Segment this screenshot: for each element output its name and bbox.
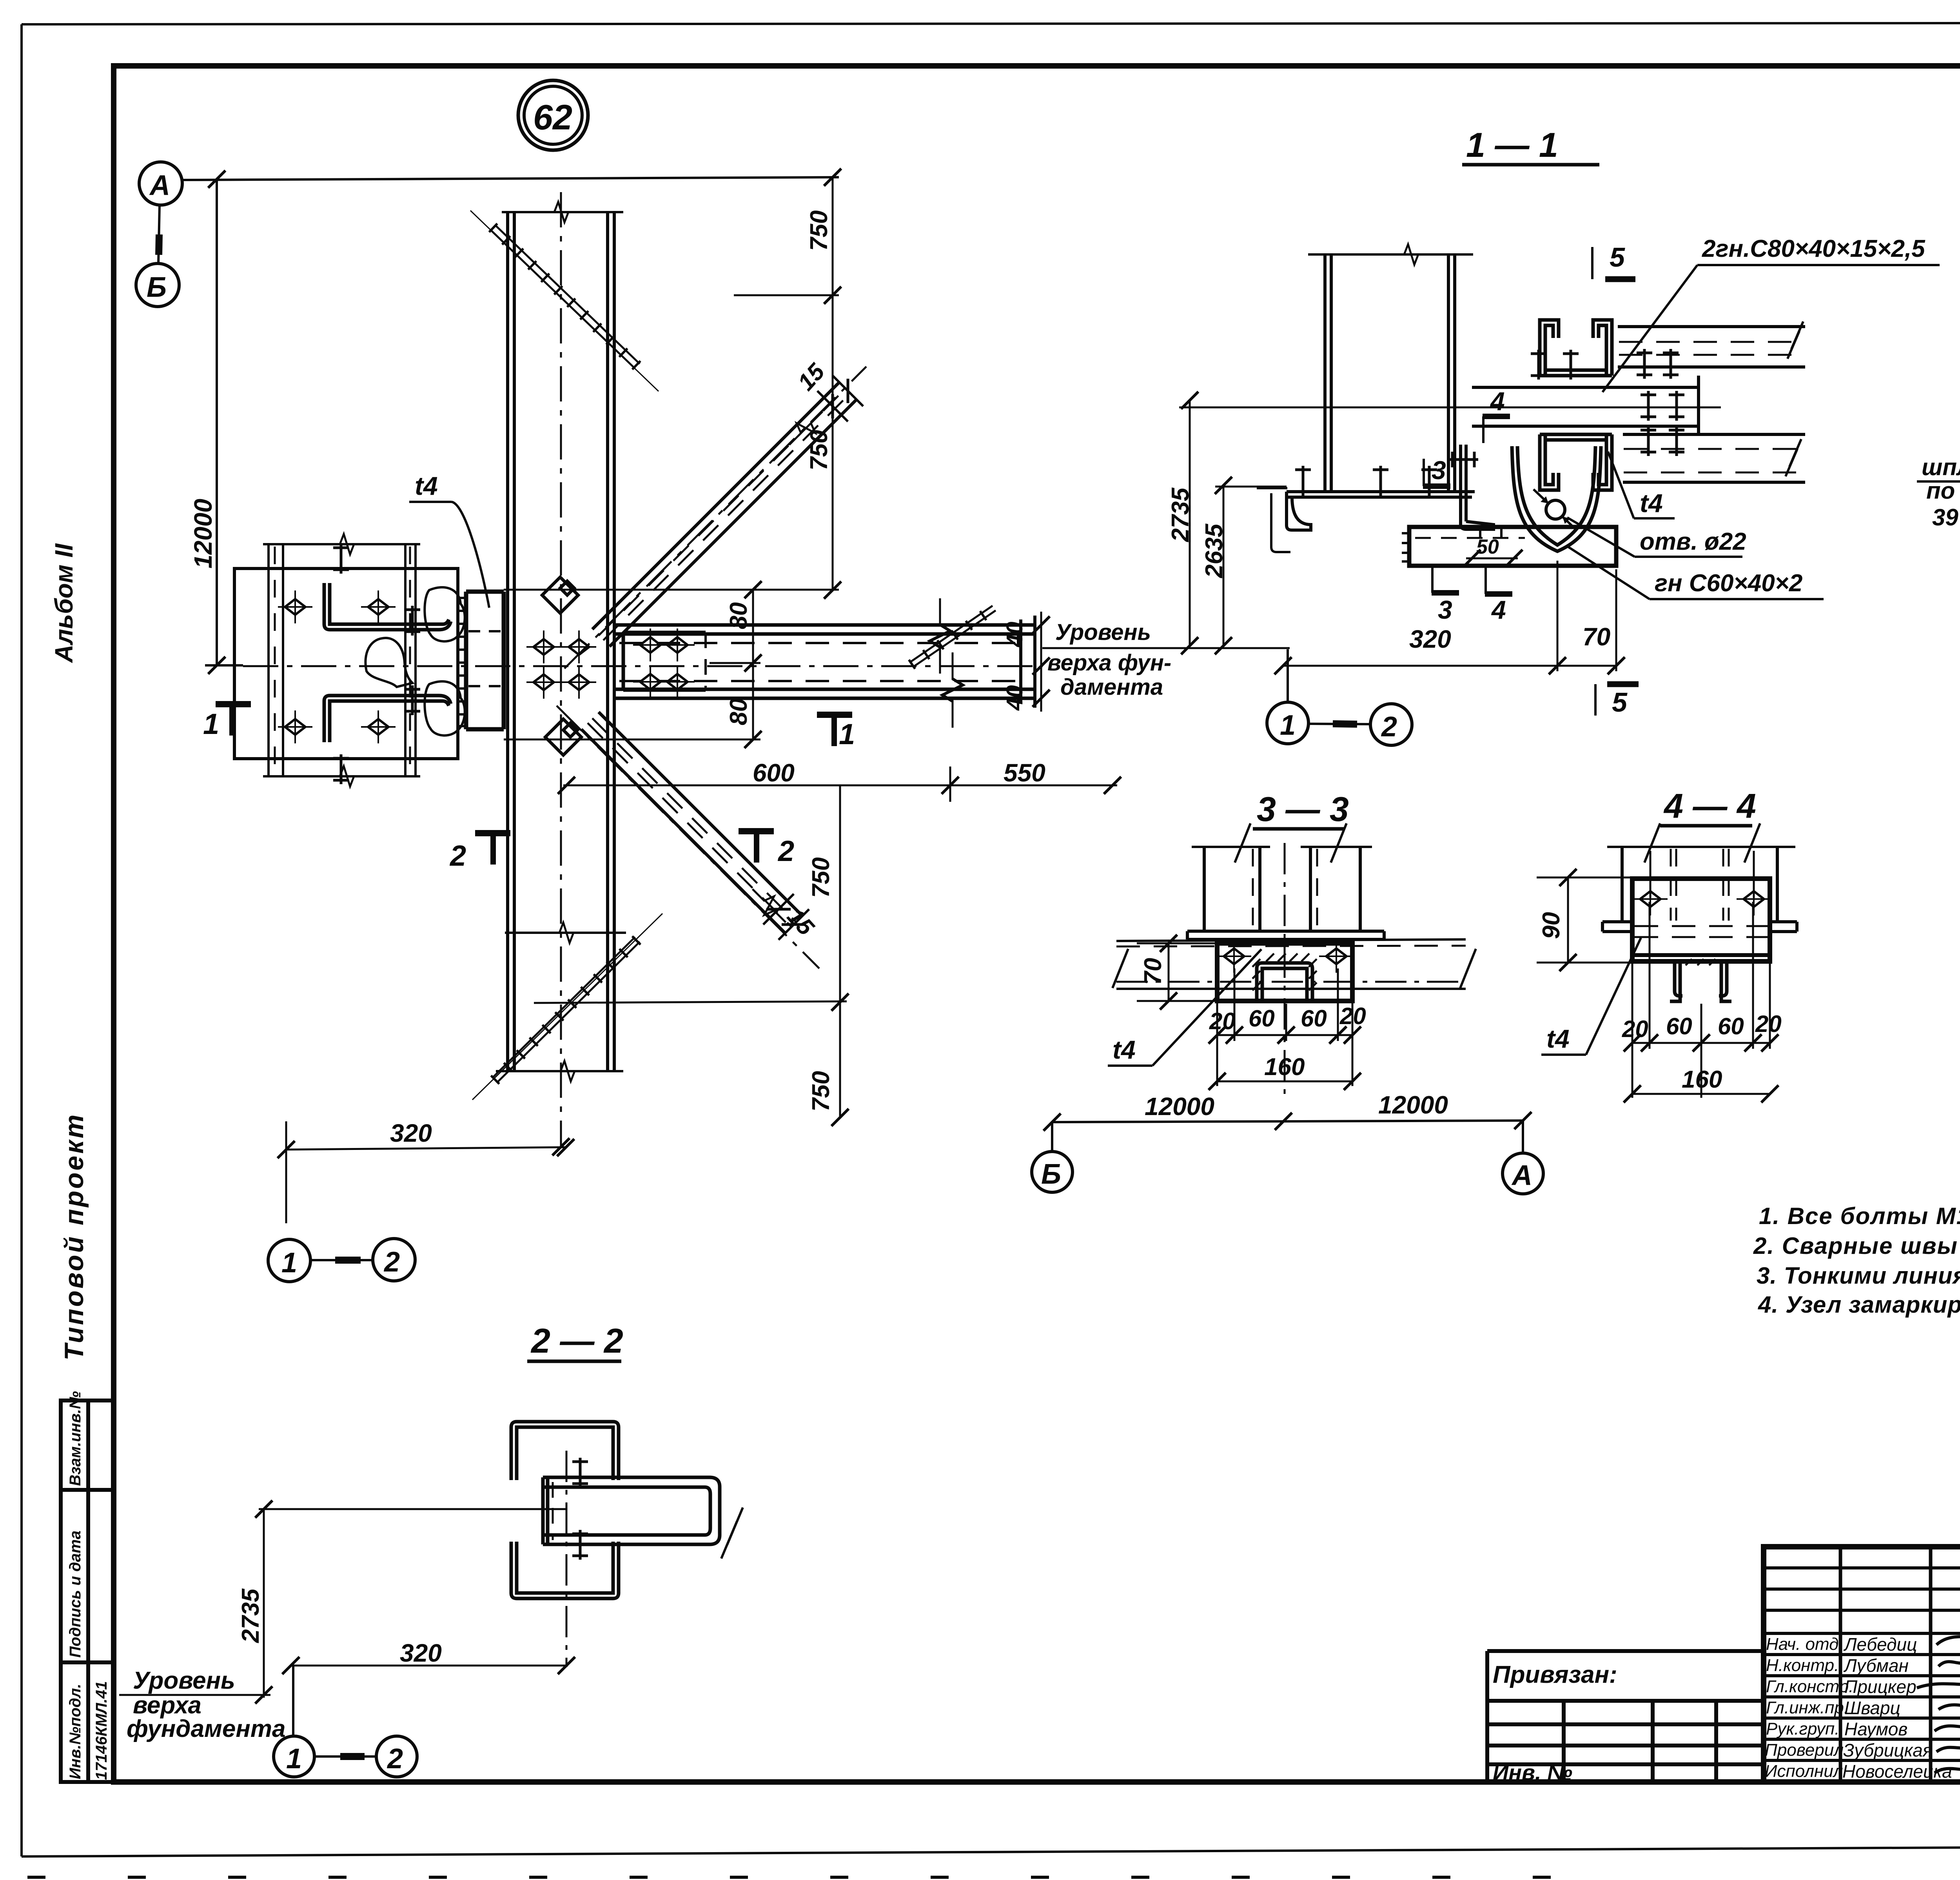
column of section 1-1 [1325,254,1455,492]
svg-text:397-79*: 397-79* [1932,504,1960,530]
dim 70 s33 [1168,943,1170,1001]
svg-text:1. Все болты М12.: 1. Все болты М12. [1759,1203,1960,1229]
beam top flange [615,625,1035,698]
svg-text:2 — 2: 2 — 2 [530,1321,623,1360]
grid bubble B [136,263,179,307]
svg-text:2: 2 [1381,711,1397,743]
svg-text:верха фун-: верха фун- [1047,650,1171,676]
svg-text:1 — 1: 1 — 1 [1466,125,1558,164]
brace upper gusset diamond [542,577,578,613]
wall verticals through plate [269,544,416,776]
svg-text:отв. ø22: отв. ø22 [1640,528,1746,555]
svg-text:Альбом II: Альбом II [50,543,78,663]
svg-text:750: 750 [808,857,835,898]
svg-text:320: 320 [400,1639,442,1667]
svg-text:2гн.С80×40×15×2,5: 2гн.С80×40×15×2,5 [1702,235,1926,262]
channel upper [324,583,451,630]
base plate 1-1 [1409,527,1616,566]
svg-text:дамента: дамента [1060,674,1163,700]
column flanges 3-3 [1204,847,1360,931]
grid bubble A bottom [1522,1121,1524,1153]
svg-text:Исполнил: Исполнил [1765,1762,1843,1781]
svg-text:320: 320 [390,1119,432,1147]
privyazan block [1487,1651,1764,1782]
column mid break lines [505,932,626,934]
lower channel [1540,434,1612,490]
mid band [1472,376,1699,434]
svg-text:750: 750 [806,211,833,251]
svg-text:1: 1 [839,718,855,750]
svg-text:3 — 3: 3 — 3 [1257,790,1349,828]
svg-text:80: 80 [725,698,752,725]
dim 160 s33 [1217,1081,1352,1083]
svg-text:2635: 2635 [1201,523,1228,578]
rail upper right [1618,327,1805,367]
dim 2735 s22 [263,1509,265,1698]
svg-text:Инв.№подл.: Инв.№подл. [67,1684,84,1779]
svg-text:60: 60 [1301,1005,1327,1032]
shelf angle [1287,492,1475,530]
hatch diagonal on beam right [909,606,996,667]
svg-text:Лубман: Лубман [1843,1655,1909,1676]
plan bubbles 1 2 [268,1239,310,1282]
svg-text:Взам.инв.№: Взам.инв.№ [67,1391,84,1486]
level line left [205,664,243,667]
long beam lines 3-3 [1116,939,1466,941]
svg-text:t4: t4 [1640,489,1663,518]
bolts on shelf [1295,466,1311,496]
dim 12000 vertical [216,179,218,665]
svg-text:2: 2 [387,1743,403,1775]
svg-text:Проверил: Проверил [1765,1740,1844,1760]
dim 600/550 [563,785,1117,787]
svg-text:Уровень: Уровень [1055,619,1151,645]
middle beam 2-2 [543,1477,720,1544]
dim chain 750/750 right top [832,177,834,591]
svg-text:1: 1 [286,1743,302,1775]
dim 90 s44 [1567,877,1569,963]
brace lower end cut [779,909,809,940]
beam break marks [930,598,950,674]
bubbles 1 2 s22 [292,1666,294,1736]
svg-text:t4: t4 [415,471,438,500]
svg-text:40: 40 [1002,621,1027,647]
section mark 4 top [1482,416,1485,443]
svg-text:50: 50 [1476,536,1499,558]
channel lower [324,696,451,742]
column (vertical member) [508,212,614,1071]
vertical angle at column base [1461,445,1494,529]
weld blobs [365,638,412,687]
svg-text:750: 750 [806,430,833,470]
svg-text:Наумов: Наумов [1844,1719,1907,1739]
svg-text:4. Узел замаркирован на лис: 4. Узел замаркирован на листе 43. [1758,1291,1960,1318]
centerline 2-2 [566,1451,568,1667]
node circle 62 [518,80,588,150]
extension lines [1179,407,1411,409]
svg-text:3. Тонкими линиями изображе: 3. Тонкими линиями изображены конструкци… [1757,1262,1960,1289]
svg-text:2: 2 [777,835,794,867]
svg-text:550: 550 [1004,759,1045,787]
top hat channel 2-2 [511,1422,619,1480]
column flanges 4-4 [1622,847,1777,922]
svg-text:40: 40 [1002,685,1027,711]
bottom hat channel 2-2 [511,1542,619,1598]
svg-text:5: 5 [1610,242,1625,272]
bubbles 1 2 of section 1-1 [1287,649,1289,702]
svg-text:20: 20 [1622,1016,1648,1042]
dims 20 60 60 20 s44 [1632,1042,1770,1044]
gusset weld ticks [458,598,467,726]
svg-text:А: А [1511,1160,1532,1191]
section mark 3 bottom [1431,567,1434,593]
left grid horizontals [1764,1568,1960,1760]
svg-text:2: 2 [449,839,466,872]
svg-text:80: 80 [725,602,752,629]
bubble connector [158,205,160,263]
splice plate [623,632,706,690]
svg-text:Прицкер: Прицкер [1844,1677,1916,1697]
svg-text:Подпись и дата: Подпись и дата [67,1531,84,1658]
top break line 4-4 [1607,846,1795,848]
left grid verticals [1840,1547,1960,1782]
section mark 1 right [817,712,852,718]
svg-text:Гл.констр.: Гл.констр. [1766,1677,1853,1696]
bottom dashed line [27,1876,1627,1879]
svg-text:фундамента: фундамента [127,1715,285,1742]
upper lipped channel [1540,320,1612,376]
svg-text:4 — 4: 4 — 4 [1663,787,1756,825]
50 slot dim [1479,528,1481,538]
section mark 5 bottom [1594,684,1597,716]
brace upper end cut [833,376,863,406]
svg-text:160: 160 [1682,1066,1722,1093]
svg-text:Нач. отд.: Нач. отд. [1766,1635,1844,1654]
left edge lines [1257,487,1287,489]
center bolts [526,630,561,663]
svg-text:Привязан:: Привязан: [1493,1661,1617,1688]
svg-text:60: 60 [1666,1013,1692,1039]
section mark 4 bottom [1485,568,1487,594]
svg-text:750: 750 [808,1071,835,1112]
svg-text:90: 90 [1538,912,1565,939]
svg-text:Типовой проект: Типовой проект [59,1113,89,1361]
svg-text:4: 4 [1490,387,1505,416]
brace upper right [592,382,857,647]
bottom plate 4-4 [1632,953,1770,957]
grid dim 12000+12000 below [1052,1121,1523,1122]
svg-text:Б: Б [1041,1159,1061,1190]
level line 2-2 [259,1508,566,1510]
svg-text:2. Сварные швы Кf =5мм.: 2. Сварные швы Кf =5мм. [1753,1233,1960,1259]
dims 20 60 60 20 s33 [1217,1034,1352,1036]
edge bolt symbols [405,606,420,636]
section mark 2 left [475,830,510,836]
svg-text:2: 2 [383,1246,400,1278]
inner channel 3-3 [1257,963,1312,1000]
brace lower gusset diamond [545,719,581,755]
svg-text:2735: 2735 [1167,487,1194,542]
svg-text:шплинты: шплинты [1922,454,1960,480]
bracket plate 4-4 [1632,879,1770,961]
stamp names [1842,1634,1952,1782]
svg-text:Зубрицкая: Зубрицкая [1843,1740,1932,1760]
section mark 2 right [739,828,774,834]
dim 320 s22 [291,1665,566,1667]
svg-text:320: 320 [1409,625,1451,653]
stamp outer [1764,1547,1960,1782]
beam end plate [1019,619,1022,704]
beam centerline [243,665,1043,667]
svg-text:1: 1 [1280,710,1296,741]
svg-text:Лебедиц: Лебедиц [1843,1634,1917,1655]
dim 320 plan [286,1147,566,1150]
svg-text:2735: 2735 [237,1588,264,1643]
svg-text:Инв. №: Инв. № [1493,1760,1572,1785]
brace lower right [581,712,802,933]
bracket plate 3-3 [1217,943,1352,1001]
svg-text:t4: t4 [1546,1024,1570,1053]
beam hidden lines [619,642,1025,644]
svg-text:Гл.инж.пр.: Гл.инж.пр. [1766,1698,1849,1717]
svg-text:160: 160 [1264,1054,1305,1081]
top extension line from A [182,177,839,180]
signatures [1917,1627,1960,1775]
dim 40/40 beam end [1040,612,1042,712]
plate bolts [278,590,312,623]
sidebar stamp boxes [61,1400,114,1782]
hatch diagonal column bottom [472,914,662,1100]
svg-text:12000: 12000 [1378,1091,1448,1119]
dim 160 s44 [1632,1093,1770,1095]
svg-text:12000: 12000 [1145,1092,1214,1121]
svg-text:62: 62 [533,98,572,137]
beam flange through 4-4 [1602,922,1797,932]
svg-text:гн С60×40×2: гн С60×40×2 [1655,570,1802,597]
svg-text:12000: 12000 [189,499,217,569]
svg-text:А: А [149,170,170,201]
svg-text:4: 4 [1491,595,1506,624]
rail lower right [1623,434,1805,482]
svg-text:1: 1 [203,708,219,740]
dim 2635 of 1-1 [1223,485,1225,647]
svg-text:17146КМЛ.41: 17146КМЛ.41 [93,1681,110,1780]
dim 2735 of 1-1 [1189,400,1191,647]
svg-text:20: 20 [1339,1003,1366,1029]
svg-text:Шварц: Шварц [1844,1698,1900,1718]
column centerline [560,192,562,1147]
grid bubble B bottom [1051,1122,1053,1152]
grid bubble A [139,162,182,205]
lower ext line [534,1001,847,1003]
splice bolts [633,628,668,661]
U strap [1512,446,1601,551]
svg-text:3: 3 [1432,456,1446,485]
section mark 5 top [1591,247,1593,279]
hatch diagonal top on column [470,211,659,391]
hole o22 [1546,500,1565,519]
svg-text:20: 20 [1755,1011,1782,1037]
svg-text:20: 20 [1209,1008,1236,1034]
section mark 1 left [216,701,251,707]
brace upper break [782,404,830,452]
svg-text:Уровень: Уровень [133,1667,235,1694]
channel legs below 4-4 [1670,961,1731,1001]
brace lower break [745,882,793,930]
base plate assembly [234,569,458,759]
svg-text:Б: Б [147,272,167,303]
base plate 3-3 [1187,931,1384,939]
svg-text:70: 70 [1140,958,1167,985]
svg-text:3: 3 [1438,595,1452,624]
svg-text:t4: t4 [1112,1035,1136,1064]
svg-text:70: 70 [1583,623,1610,651]
svg-text:Н.контр.: Н.контр. [1766,1656,1839,1675]
dim 80/80 [752,590,754,739]
svg-text:600: 600 [753,759,795,787]
column centerline 3-3 [1284,843,1286,1094]
gusset plate t4 edge view [466,592,504,729]
svg-text:5: 5 [1612,687,1628,717]
dim 320/70 of 1-1 [1283,665,1616,667]
section mark 3 top [1423,459,1425,486]
svg-text:Рук.груп.: Рук.груп. [1766,1719,1840,1738]
svg-text:60: 60 [1249,1005,1275,1032]
dim 750/750 right bottom [839,785,841,1118]
svg-text:60: 60 [1718,1013,1744,1039]
stamp role labels [1765,1635,1853,1781]
svg-text:1: 1 [281,1247,297,1279]
column top break [502,211,623,213]
